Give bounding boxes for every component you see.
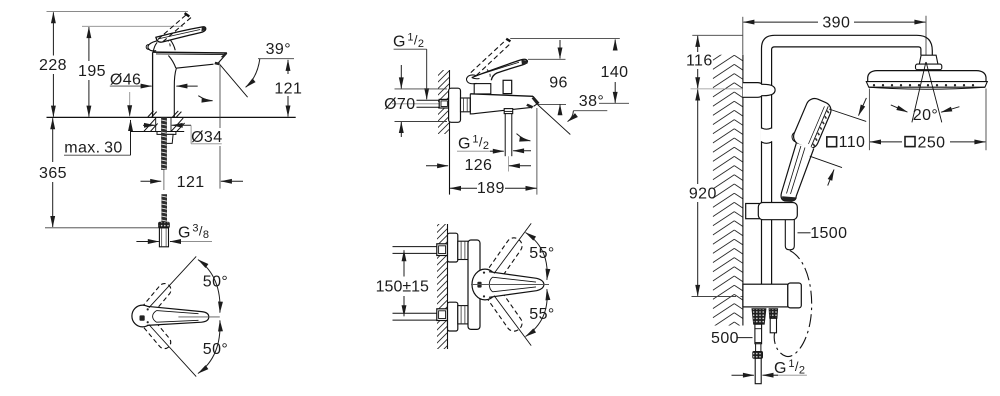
- 38deg arc arrow: [568, 111, 574, 122]
- dim 189: [450, 187, 477, 189]
- dim 126: [426, 165, 448, 167]
- ref line 195 level: [82, 25, 183, 27]
- ref line lever tip (middle): [528, 58, 566, 60]
- ref line raised lever (middle): [510, 38, 620, 40]
- bath mixer body: [470, 94, 533, 97]
- dim 150+-15: [403, 250, 405, 276]
- 20deg spray lines: [912, 62, 926, 122]
- lower escutcheon: [448, 302, 458, 331]
- handle swing view: knob: [132, 305, 153, 327]
- spout tip reference line: [219, 65, 221, 129]
- svg-text:38°: 38°: [579, 93, 604, 110]
- ref line spout tip (middle): [536, 108, 538, 195]
- svg-text:126: 126: [464, 157, 492, 174]
- 55deg arc down: [526, 289, 548, 336]
- svg-text:Ø70: Ø70: [384, 96, 415, 113]
- dim 121 upper: [287, 60, 289, 74]
- mounting washer: [157, 132, 176, 135]
- dim 195: [88, 27, 90, 61]
- svg-text:365: 365: [39, 165, 67, 182]
- upper hex on wall: [437, 244, 448, 256]
- svg-text:110: 110: [839, 134, 866, 151]
- G3/8 tail pipe: [161, 194, 167, 222]
- hand shower button: [792, 133, 796, 142]
- basin mixer lever: [156, 27, 206, 42]
- handle swing view: lever: [147, 306, 209, 325]
- lower knurled nut: [753, 351, 763, 358]
- lower union nut: [458, 306, 468, 324]
- rail break symbol: [761, 129, 773, 142]
- threaded shank: [161, 117, 167, 169]
- dim 365: [52, 118, 54, 162]
- basin mixer spout top: [153, 51, 227, 54]
- 20deg arrows: [891, 105, 908, 112]
- mixer lever: [472, 59, 528, 80]
- dashed lever down (middle view): [481, 280, 525, 334]
- svg-text:116: 116: [686, 53, 713, 70]
- 50deg ray up: [149, 256, 196, 307]
- label 1500: [798, 232, 811, 234]
- svg-text:390: 390: [822, 14, 850, 31]
- arrow at faucet right edge (D46): [176, 85, 197, 87]
- wall bracket: [743, 83, 775, 98]
- svg-text:50°: 50°: [203, 274, 228, 291]
- basin mixer handle dome: [153, 42, 157, 52]
- dim sq250: [870, 141, 902, 143]
- hose loop dashed: [774, 251, 811, 357]
- mixer handle knob: [466, 75, 476, 84]
- dim 390: [743, 21, 818, 23]
- ref line spout level (middle): [599, 102, 629, 104]
- label D34: [143, 124, 155, 126]
- ref line 116 top: [692, 34, 743, 36]
- dim 228: [52, 12, 54, 55]
- rail slider holder: [746, 204, 762, 219]
- svg-text:121: 121: [274, 81, 302, 98]
- diverter knob: [503, 80, 512, 93]
- middle swivel arc arrow: [517, 134, 531, 141]
- label sq110: [827, 137, 837, 147]
- left outlet knurled nut: [752, 309, 766, 325]
- dashed lever up (middle view): [481, 235, 525, 289]
- 39deg arc arrow: [246, 59, 260, 87]
- supply pipe in wall: [417, 99, 440, 101]
- head plate: [868, 71, 986, 82]
- dim 390 refs: [742, 17, 744, 55]
- svg-text:Ø34: Ø34: [191, 129, 222, 146]
- svg-text:228: 228: [39, 57, 67, 74]
- svg-text:20°: 20°: [913, 107, 938, 124]
- svg-text:140: 140: [601, 64, 629, 81]
- wall hatch (middle): [438, 70, 450, 134]
- svg-text:50°: 50°: [203, 341, 228, 358]
- svg-text:1500: 1500: [810, 225, 847, 242]
- dashed raised lever: [158, 14, 187, 40]
- counter underside line: [131, 131, 185, 133]
- upper union nut: [458, 241, 468, 259]
- 55deg ray up: [494, 223, 531, 273]
- dim 96: [559, 40, 561, 59]
- handle centerline: [178, 316, 219, 318]
- bottom supply tube: [755, 358, 761, 383]
- countertop line: [47, 116, 296, 118]
- wall face line (middle): [449, 70, 451, 195]
- union ring: [461, 98, 471, 112]
- wall face line (right): [742, 55, 744, 326]
- wall face line (middle bottom): [447, 224, 449, 349]
- mixer centerline / 920 bottom ref: [692, 296, 737, 298]
- handle lever (middle view): [489, 272, 544, 298]
- dim 116: [697, 36, 699, 52]
- supply centerline: [392, 103, 449, 105]
- dim 920: [697, 90, 699, 185]
- dim 121 lower: [141, 180, 162, 182]
- hand shower hose: [785, 220, 794, 250]
- counter section hatch marks: [148, 111, 154, 117]
- svg-text:55°: 55°: [529, 245, 554, 262]
- escutcheon: [449, 88, 461, 122]
- svg-text:150±15: 150±15: [376, 279, 429, 296]
- 55deg arc up: [526, 233, 548, 280]
- svg-text:189: 189: [477, 180, 505, 197]
- mixer body plate: [468, 240, 480, 329]
- handle swing view: dashed lever up: [138, 281, 174, 320]
- head rim: [866, 82, 987, 88]
- 55deg ray down: [494, 296, 531, 346]
- svg-text:195: 195: [78, 63, 106, 80]
- upper escutcheon: [448, 233, 458, 262]
- spout tip: [217, 53, 227, 64]
- wall chevron hatch (right): [713, 46, 743, 345]
- centerline (middle view): [471, 284, 549, 286]
- dim sq110 ext lines: [829, 109, 866, 121]
- dim 140: [614, 40, 616, 49]
- mounting nut: [163, 134, 173, 143]
- lower hex on wall: [437, 309, 448, 321]
- outlet pipe centerline: [508, 156, 510, 171]
- shower mixer body: [743, 284, 788, 307]
- hand shower handle: [781, 143, 814, 201]
- 50deg arc up: [198, 260, 220, 313]
- spout swivel arc arrow: [198, 96, 212, 101]
- 50deg ray down: [149, 325, 196, 377]
- head underside: [869, 87, 985, 89]
- svg-text:55°: 55°: [529, 306, 554, 323]
- nozzle dots: [873, 84, 875, 86]
- cartridge collar: [474, 84, 491, 94]
- head connector: [919, 55, 938, 64]
- ref line 365 bottom: [45, 227, 159, 229]
- dim 250 refs: [868, 89, 870, 151]
- basin mixer body column: [152, 52, 154, 117]
- upper supply pipe: [393, 246, 438, 248]
- handle swing view: dashed lever down: [138, 312, 174, 351]
- lower supply pipe: [393, 312, 438, 314]
- svg-text:max. 30: max. 30: [64, 140, 122, 157]
- outlet pipe: [504, 114, 506, 157]
- shank axis line: [163, 170, 165, 190]
- ref line top (raised handle level): [47, 11, 189, 13]
- 50deg arc down: [198, 320, 220, 373]
- handle knob (middle view): [472, 269, 498, 300]
- 38deg stream line: [538, 105, 571, 135]
- right outlet tube: [770, 318, 776, 333]
- bracket centerline: [691, 88, 763, 90]
- wall hatch (middle bottom): [437, 224, 448, 349]
- max30 upper arrow: [129, 92, 131, 116]
- svg-text:121: 121: [177, 174, 205, 191]
- sq110 arrows: [859, 98, 867, 116]
- water stream line: [220, 64, 248, 97]
- shower outlet fitting: [504, 109, 513, 114]
- svg-text:39°: 39°: [266, 41, 291, 58]
- svg-text:96: 96: [549, 74, 568, 91]
- hand shower head: [791, 96, 834, 151]
- shower rail pipe: [762, 35, 933, 284]
- counter hole walls: [155, 117, 157, 131]
- svg-text:920: 920: [689, 186, 717, 203]
- supply hose tube: [755, 324, 762, 344]
- basin mixer handle knob: [148, 40, 159, 51]
- svg-text:500: 500: [711, 330, 739, 347]
- right outlet knurled nut: [769, 309, 778, 319]
- svg-text:250: 250: [918, 134, 946, 151]
- dashed raised lever (middle): [471, 40, 506, 73]
- supply hex nut: [439, 99, 449, 108]
